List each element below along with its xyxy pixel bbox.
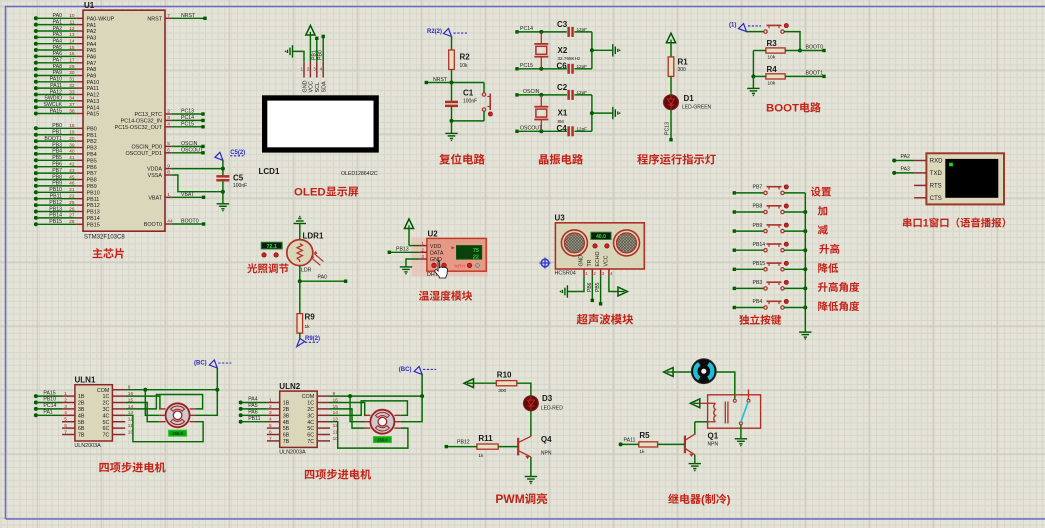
svg-text:7B: 7B	[78, 433, 85, 439]
svg-text:PA6: PA6	[248, 410, 258, 416]
svg-text:4: 4	[320, 67, 323, 72]
svg-text:PA1: PA1	[43, 410, 53, 416]
svg-text:4B: 4B	[78, 413, 85, 419]
svg-text:PB2: PB2	[87, 139, 97, 145]
svg-text:OSCIN: OSCIN	[523, 89, 540, 95]
svg-text:PA4: PA4	[248, 397, 258, 403]
svg-text:PA6: PA6	[53, 51, 63, 57]
svg-text:10k: 10k	[460, 63, 469, 69]
svg-text:PA3: PA3	[87, 35, 97, 41]
svg-text:NRST: NRST	[181, 13, 196, 19]
svg-text:PB1: PB1	[87, 133, 97, 139]
svg-text:PB4: PB4	[52, 149, 62, 155]
svg-text:PB10: PB10	[43, 397, 56, 403]
svg-text:C2: C2	[557, 83, 568, 92]
svg-text:PB15: PB15	[753, 261, 766, 267]
svg-text:PB13: PB13	[396, 246, 409, 252]
svg-text:PC14: PC14	[43, 403, 56, 409]
svg-text:32.768KHz: 32.768KHz	[558, 56, 581, 61]
svg-text:PA5: PA5	[53, 45, 63, 51]
svg-text:VDD: VDD	[430, 244, 441, 250]
svg-text:6: 6	[167, 148, 170, 154]
svg-text:NPN: NPN	[541, 450, 552, 456]
svg-text:R3: R3	[767, 39, 778, 48]
svg-text:RTS: RTS	[930, 184, 942, 190]
svg-text:1: 1	[167, 192, 170, 198]
svg-text:7: 7	[64, 429, 67, 435]
svg-text:31: 31	[69, 77, 75, 83]
svg-text:GND: GND	[430, 257, 442, 263]
svg-text:PA7: PA7	[53, 58, 63, 64]
svg-text:PA15: PA15	[50, 108, 62, 114]
svg-text:ULN2003A: ULN2003A	[279, 450, 306, 456]
svg-text:LED-RED: LED-RED	[541, 406, 563, 412]
svg-text:X2: X2	[558, 46, 568, 55]
svg-text:PA2: PA2	[901, 154, 911, 160]
svg-text:7C: 7C	[307, 439, 314, 445]
svg-text:40.0: 40.0	[596, 234, 606, 240]
svg-text:NRST: NRST	[147, 16, 162, 22]
svg-text:TR: TR	[587, 259, 593, 266]
svg-text:PB12: PB12	[87, 203, 100, 209]
svg-text:12pF: 12pF	[577, 64, 588, 69]
svg-text:GND: GND	[302, 80, 308, 92]
svg-text:29: 29	[69, 64, 75, 70]
svg-text:5B: 5B	[78, 420, 85, 426]
svg-text:CTS: CTS	[930, 196, 942, 202]
svg-text:4: 4	[269, 417, 272, 423]
svg-text:27: 27	[69, 213, 75, 219]
svg-text:PB8: PB8	[52, 174, 62, 180]
svg-text:3: 3	[602, 271, 605, 276]
svg-text:19: 19	[69, 130, 75, 136]
svg-text:R5: R5	[639, 431, 650, 440]
svg-text:Q4: Q4	[541, 435, 552, 444]
svg-text:C3: C3	[557, 20, 568, 29]
svg-text:PA5: PA5	[87, 48, 97, 54]
svg-text:PA14: PA14	[87, 105, 100, 111]
svg-text:100nF: 100nF	[463, 99, 477, 105]
svg-text:7B: 7B	[283, 439, 290, 445]
svg-text:(1): (1)	[729, 23, 736, 29]
svg-text:6B: 6B	[283, 433, 290, 439]
svg-text:3: 3	[269, 410, 272, 416]
svg-text:R4: R4	[767, 65, 778, 74]
svg-text:1C: 1C	[102, 394, 109, 400]
svg-text:X1: X1	[558, 109, 568, 118]
svg-text:PA0: PA0	[318, 275, 328, 281]
svg-text:PA3: PA3	[53, 32, 63, 38]
svg-text:PA13: PA13	[87, 99, 100, 105]
svg-text:21: 21	[69, 187, 75, 193]
svg-text:1C: 1C	[307, 401, 314, 407]
svg-text:PB11: PB11	[248, 416, 260, 422]
svg-text:PB15: PB15	[87, 222, 100, 228]
svg-text:6C: 6C	[102, 426, 109, 432]
svg-text:R10: R10	[497, 371, 512, 380]
svg-text:SWCLK: SWCLK	[44, 102, 63, 108]
svg-text:VCC: VCC	[309, 81, 315, 92]
svg-text:PB0: PB0	[52, 123, 62, 129]
svg-text:PB14: PB14	[87, 216, 100, 222]
svg-text:41: 41	[69, 155, 75, 161]
svg-text:26: 26	[69, 206, 75, 212]
svg-text:2: 2	[594, 271, 597, 276]
svg-text:PB5: PB5	[595, 282, 601, 292]
svg-text:PB3: PB3	[87, 146, 97, 152]
svg-text:1k: 1k	[478, 453, 484, 459]
svg-text:OSCIN_PD0: OSCIN_PD0	[131, 145, 162, 151]
svg-text:PA11: PA11	[87, 86, 99, 92]
svg-text:PA10: PA10	[50, 77, 62, 83]
svg-text:PA15: PA15	[87, 112, 100, 118]
svg-text:PA8: PA8	[53, 64, 63, 70]
svg-text:12pF: 12pF	[577, 127, 588, 132]
svg-text:PB13: PB13	[49, 206, 62, 212]
svg-text:LDR: LDR	[301, 268, 312, 274]
svg-text:100nF: 100nF	[233, 183, 247, 189]
svg-text:4C: 4C	[307, 420, 314, 426]
svg-text:D1: D1	[684, 94, 695, 103]
svg-text:ULN2003A: ULN2003A	[74, 443, 101, 449]
svg-text:PA2: PA2	[53, 26, 63, 32]
svg-text:33: 33	[69, 89, 75, 95]
svg-text:5C: 5C	[307, 426, 314, 432]
svg-text:10k: 10k	[768, 81, 776, 87]
svg-text:OSCIN: OSCIN	[181, 141, 198, 147]
svg-text:OSCOUT: OSCOUT	[520, 126, 543, 132]
svg-text:LDR1: LDR1	[303, 232, 324, 241]
svg-text:PB13: PB13	[87, 210, 100, 216]
svg-text:PB3: PB3	[753, 280, 763, 286]
svg-text:PB10: PB10	[49, 187, 62, 193]
svg-text:PB0: PB0	[87, 126, 97, 132]
svg-text:28: 28	[69, 219, 75, 225]
svg-text:BOOT0: BOOT0	[806, 45, 824, 51]
svg-text:VSSA: VSSA	[148, 173, 163, 179]
svg-text:PB11: PB11	[50, 194, 62, 200]
svg-text:PB7: PB7	[753, 185, 763, 191]
svg-text:7: 7	[269, 436, 272, 442]
svg-text:2: 2	[269, 404, 272, 410]
svg-text:VBAT: VBAT	[148, 195, 162, 201]
svg-text:PA0-WKUP: PA0-WKUP	[87, 16, 115, 22]
svg-text:PB0: PB0	[318, 50, 324, 60]
svg-text:SWDIO: SWDIO	[44, 96, 62, 102]
svg-text:C5(2): C5(2)	[230, 150, 245, 156]
svg-text:3C: 3C	[102, 407, 109, 413]
svg-text:NRST: NRST	[433, 77, 448, 83]
svg-text:12: 12	[69, 26, 75, 32]
svg-text:C1: C1	[463, 89, 474, 98]
svg-text:PB12: PB12	[49, 200, 62, 206]
svg-text:PA5: PA5	[248, 403, 258, 409]
svg-text:2C: 2C	[307, 407, 314, 413]
svg-text:1: 1	[64, 391, 67, 397]
svg-text:1B: 1B	[78, 394, 85, 400]
svg-text:25: 25	[69, 200, 75, 206]
svg-text:43: 43	[69, 168, 75, 174]
svg-text:OLED12864I2C: OLED12864I2C	[341, 171, 378, 177]
svg-text:BOOT0: BOOT0	[181, 219, 199, 225]
svg-text:4: 4	[610, 271, 613, 276]
svg-text:255.0: 255.0	[377, 437, 388, 442]
svg-text:PC15: PC15	[181, 122, 194, 128]
svg-text:PC15-OSC32_OUT: PC15-OSC32_OUT	[115, 125, 163, 131]
svg-text:22: 22	[473, 254, 479, 260]
svg-text:NPN: NPN	[708, 441, 719, 447]
svg-text:PC13_RTC: PC13_RTC	[135, 112, 163, 118]
svg-text:PC14-OSC32_IN: PC14-OSC32_IN	[121, 119, 162, 125]
svg-text:PA4: PA4	[53, 39, 63, 45]
svg-text:1k: 1k	[639, 449, 645, 455]
svg-text:PWM: PWM	[495, 492, 524, 506]
svg-text:4: 4	[167, 122, 170, 128]
svg-text:PA8: PA8	[87, 67, 97, 73]
svg-text:ULN2: ULN2	[279, 382, 300, 391]
svg-text:R9(2): R9(2)	[305, 336, 320, 342]
svg-text:22: 22	[69, 194, 75, 200]
svg-text:PB6: PB6	[587, 282, 593, 292]
svg-text:C5: C5	[233, 174, 244, 183]
svg-text:Q1: Q1	[708, 432, 719, 441]
svg-text:6B: 6B	[78, 426, 85, 432]
svg-text:PB3: PB3	[52, 142, 62, 148]
svg-text:32: 32	[69, 83, 75, 89]
svg-text:3: 3	[64, 404, 67, 410]
svg-text:PC15: PC15	[520, 63, 533, 69]
svg-text:ECHO: ECHO	[595, 252, 601, 267]
svg-text:4: 4	[64, 410, 67, 416]
svg-text:PB9: PB9	[87, 184, 97, 190]
svg-text:BOOT1: BOOT1	[44, 136, 62, 142]
svg-text:PA0: PA0	[53, 13, 63, 19]
svg-text:7C: 7C	[102, 433, 109, 439]
svg-text:PB8: PB8	[753, 204, 763, 210]
svg-text:PA12: PA12	[50, 89, 62, 95]
svg-text:BOOT1: BOOT1	[806, 71, 824, 77]
svg-text:42: 42	[69, 162, 75, 168]
svg-text:OSCOUT: OSCOUT	[181, 148, 204, 154]
svg-text:PA2: PA2	[87, 29, 97, 35]
svg-text:2: 2	[307, 67, 310, 72]
svg-text:TXD: TXD	[930, 171, 943, 177]
svg-text:PB5: PB5	[52, 155, 62, 161]
svg-text:(BC): (BC)	[399, 367, 412, 373]
svg-text:PB4: PB4	[87, 152, 97, 158]
svg-text:PB5: PB5	[87, 158, 97, 164]
svg-text:PB15: PB15	[49, 219, 62, 225]
svg-text:PB1: PB1	[52, 130, 62, 136]
svg-text:PA9: PA9	[53, 70, 63, 76]
svg-text:PA15: PA15	[43, 390, 55, 396]
svg-text:12pF: 12pF	[577, 27, 588, 32]
svg-text:14: 14	[69, 39, 75, 45]
svg-text:D3: D3	[542, 394, 553, 403]
svg-text:255.0: 255.0	[172, 431, 183, 436]
svg-text:BOOT: BOOT	[766, 103, 799, 115]
svg-text:72.1: 72.1	[267, 244, 277, 250]
svg-text:COM: COM	[97, 388, 110, 394]
svg-text:1k: 1k	[305, 324, 311, 330]
svg-text:46: 46	[69, 181, 75, 187]
svg-text:R11: R11	[478, 434, 493, 443]
svg-text:(: (	[701, 494, 705, 506]
svg-text:RXD: RXD	[930, 159, 943, 165]
svg-text:VCC: VCC	[604, 255, 610, 266]
svg-text:U3: U3	[555, 214, 566, 223]
svg-text:SCL: SCL	[315, 82, 321, 93]
svg-text:R1: R1	[678, 58, 689, 67]
svg-text:PA12: PA12	[87, 93, 100, 99]
svg-text:13: 13	[69, 32, 75, 38]
svg-text:75: 75	[473, 248, 479, 254]
svg-text:PA4: PA4	[87, 42, 97, 48]
svg-text:4C: 4C	[102, 413, 109, 419]
svg-text:6C: 6C	[307, 433, 314, 439]
svg-text:300: 300	[498, 388, 506, 394]
svg-text:3B: 3B	[78, 407, 85, 413]
svg-text:PB1: PB1	[311, 50, 317, 60]
svg-text:PC14: PC14	[181, 115, 194, 121]
svg-text:7: 7	[167, 13, 170, 19]
svg-text:38: 38	[69, 108, 75, 114]
svg-text:5: 5	[269, 423, 272, 429]
svg-text:PB7: PB7	[52, 168, 62, 174]
svg-text:BOOT0: BOOT0	[144, 222, 162, 228]
svg-text:17: 17	[69, 58, 75, 64]
svg-text:U2: U2	[428, 230, 439, 239]
svg-text:PC13: PC13	[181, 109, 194, 115]
svg-text:PB6: PB6	[52, 162, 62, 168]
svg-text:HCSR04: HCSR04	[555, 271, 576, 277]
svg-text:DATA: DATA	[430, 251, 444, 257]
svg-text:2: 2	[64, 397, 67, 403]
svg-text:PB14: PB14	[49, 213, 62, 219]
svg-text:PC13: PC13	[665, 122, 671, 135]
svg-text:OSCOUT_PD1: OSCOUT_PD1	[125, 151, 162, 157]
svg-text:PB8: PB8	[87, 178, 97, 184]
svg-text:VDDA: VDDA	[147, 167, 162, 173]
svg-text:1: 1	[269, 397, 272, 403]
svg-text:37: 37	[69, 102, 75, 108]
svg-text:PB11: PB11	[87, 197, 100, 203]
svg-text:GND: GND	[579, 255, 585, 267]
svg-text:C6: C6	[557, 61, 568, 70]
svg-text:PA7: PA7	[87, 61, 97, 67]
svg-text:PA1: PA1	[87, 23, 97, 29]
svg-text:VBAT: VBAT	[181, 192, 195, 198]
svg-text:PA10: PA10	[87, 80, 100, 86]
svg-text:5B: 5B	[283, 426, 290, 432]
svg-text:): )	[727, 494, 731, 506]
svg-text:PB14: PB14	[753, 242, 766, 248]
svg-text:5: 5	[167, 141, 170, 147]
svg-text:18: 18	[69, 123, 75, 129]
svg-text:C4: C4	[557, 124, 568, 133]
svg-text:3B: 3B	[283, 413, 290, 419]
svg-text:12pF: 12pF	[577, 90, 588, 95]
svg-text:30: 30	[69, 70, 75, 76]
svg-text:PB9: PB9	[753, 223, 763, 229]
svg-text:PB7: PB7	[87, 171, 97, 177]
svg-text:4B: 4B	[283, 420, 290, 426]
svg-text:SDA: SDA	[322, 81, 328, 92]
svg-text:3C: 3C	[307, 413, 314, 419]
svg-text:10: 10	[69, 13, 75, 19]
svg-text:39: 39	[69, 142, 75, 148]
svg-text:PA9: PA9	[87, 74, 97, 80]
svg-text:ULN1: ULN1	[75, 376, 96, 385]
svg-text:OLED: OLED	[294, 187, 326, 199]
svg-text:LED-GREEN: LED-GREEN	[682, 104, 712, 110]
svg-text:PA3: PA3	[901, 167, 911, 173]
svg-text:PA11: PA11	[50, 83, 62, 89]
svg-text:PB4: PB4	[753, 299, 763, 305]
svg-text:1: 1	[585, 271, 588, 276]
svg-text:2C: 2C	[102, 401, 109, 407]
svg-text:(BC): (BC)	[194, 361, 207, 367]
svg-text:PB12: PB12	[457, 440, 470, 446]
svg-text:5: 5	[64, 417, 67, 423]
svg-text:34: 34	[69, 96, 75, 102]
svg-text:PA6: PA6	[87, 55, 97, 61]
svg-text:1B: 1B	[283, 401, 290, 407]
svg-text:5C: 5C	[102, 420, 109, 426]
svg-text:3: 3	[167, 115, 170, 121]
svg-text:PA11: PA11	[624, 438, 636, 444]
svg-text:10k: 10k	[768, 55, 776, 61]
svg-text:U1: U1	[84, 1, 95, 10]
svg-text:40: 40	[69, 149, 75, 155]
svg-text:PB6: PB6	[87, 165, 97, 171]
svg-text:6: 6	[64, 423, 67, 429]
svg-text:16: 16	[69, 51, 75, 57]
svg-text:15: 15	[69, 45, 75, 51]
svg-text:1: 1	[923, 218, 929, 230]
svg-text:300: 300	[678, 67, 687, 73]
svg-text:6: 6	[269, 429, 272, 435]
svg-text:2B: 2B	[283, 407, 290, 413]
svg-text:45: 45	[69, 174, 75, 180]
svg-text:1: 1	[301, 67, 304, 72]
svg-text:20: 20	[69, 136, 75, 142]
svg-text:COM: COM	[302, 394, 315, 400]
svg-text:2: 2	[167, 109, 170, 115]
svg-text:LCD1: LCD1	[259, 167, 280, 176]
svg-text:PC14: PC14	[520, 26, 533, 32]
svg-text:R2: R2	[460, 53, 471, 62]
svg-text:3: 3	[313, 67, 316, 72]
svg-text:R2(2): R2(2)	[427, 29, 442, 35]
svg-text:STM32F103C8: STM32F103C8	[84, 235, 125, 241]
svg-text:PA1: PA1	[53, 19, 63, 25]
svg-text:PB10: PB10	[87, 190, 100, 196]
svg-text:R9: R9	[305, 313, 316, 322]
svg-text:11: 11	[70, 19, 75, 25]
svg-text:PB9: PB9	[52, 181, 62, 187]
svg-text:44: 44	[167, 219, 173, 225]
svg-text:2B: 2B	[78, 401, 85, 407]
svg-text:%RH: %RH	[454, 263, 465, 268]
